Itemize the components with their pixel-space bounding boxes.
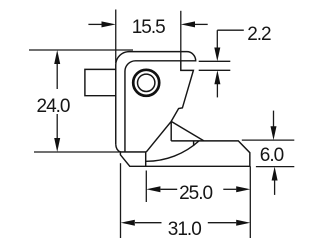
dim 24.0: bottom extension line: [34, 151, 146, 153]
part: web long diagonal: [146, 121, 171, 152]
arrow 25.0 right (points right): [236, 186, 250, 192]
arrow 15.5 left (points right): [102, 21, 116, 27]
dim 25.0: left extension line: [145, 171, 147, 203]
arrow 24.0 bottom (points down): [54, 138, 60, 152]
part: shelf edge: [120, 151, 146, 153]
part: small tick between base top edge and arc: [193, 141, 195, 146]
dim 2.2: leader to text: [217, 29, 244, 31]
arrow 2.2 upper (points down): [214, 48, 220, 62]
dim 24.0: dimension line upper part: [56, 63, 58, 89]
part: upper body outline (left wall, top corner, top edge, cap, flange bottom, inner corner, inner wall): [85, 52, 250, 167]
part: inner vertical edge under shelf: [145, 152, 147, 166]
dim 15.5: right extension line: [180, 11, 182, 61]
svg-text:24.0: 24.0: [37, 96, 70, 117]
arrow 6.0 lower (points up): [272, 167, 278, 181]
svg-text:31.0: 31.0: [168, 219, 201, 240]
dim 24.0: dimension line lower part: [56, 114, 58, 139]
part: curved slot arc (concentric with hole): [146, 141, 199, 161]
arrow 25.0 left (points left): [146, 186, 160, 192]
hole inner circle: [138, 74, 155, 91]
dim 31.0: left tail: [135, 222, 162, 224]
dim 31.0: left extension line: [120, 163, 122, 238]
svg-text:6.0: 6.0: [260, 145, 284, 166]
dim 2.2: upper arrow stem: [216, 30, 218, 48]
arrow 15.5 right (points left): [181, 21, 195, 27]
part: right step and slanted edges with notch: [171, 61, 193, 122]
dim 15.5: left extension line: [115, 10, 117, 64]
dim 15.5: right tail: [195, 23, 208, 25]
svg-text:2.2: 2.2: [247, 24, 271, 45]
svg-text:25.0: 25.0: [179, 183, 212, 204]
dim 31.0: right tail: [208, 222, 237, 224]
dim 25.0: left tail: [161, 188, 178, 190]
dim 6.0: lower arrow stem: [274, 180, 276, 195]
arrow 31.0 left (points left): [121, 220, 135, 226]
dim 15.5: left tail: [88, 23, 102, 25]
part: left tab rectangle: [85, 69, 116, 95]
dim 6.0: lower extension line: [256, 166, 294, 168]
dim 2.2: lower arrow stem: [216, 84, 218, 98]
dim 25.0: right tail: [223, 188, 236, 190]
part: triangle hypotenuse: [171, 121, 204, 140]
arrow 24.0 top (points up): [54, 50, 60, 64]
part: triangle vertical edge: [170, 121, 172, 140]
dim 24.0: top extension line: [29, 49, 133, 51]
hole outer circle: [133, 70, 159, 96]
arrow 6.0 upper (points down): [271, 126, 277, 140]
arrow 2.2 lower (points up): [214, 70, 220, 84]
dim 25.0/31.0: right extension line: [249, 166, 251, 238]
dim 2.2: lower extension line: [199, 69, 231, 71]
part: bottom-left arc, chamfer, base bottom, right edge, right chamfer, base top: [116, 141, 250, 166]
dim 6.0: upper arrow stem: [273, 111, 275, 127]
arrow 31.0 right (points right): [236, 220, 250, 226]
dim 6.0: upper extension line: [242, 139, 294, 141]
dim 2.2: upper extension line: [199, 60, 231, 62]
svg-text:15.5: 15.5: [132, 17, 165, 38]
